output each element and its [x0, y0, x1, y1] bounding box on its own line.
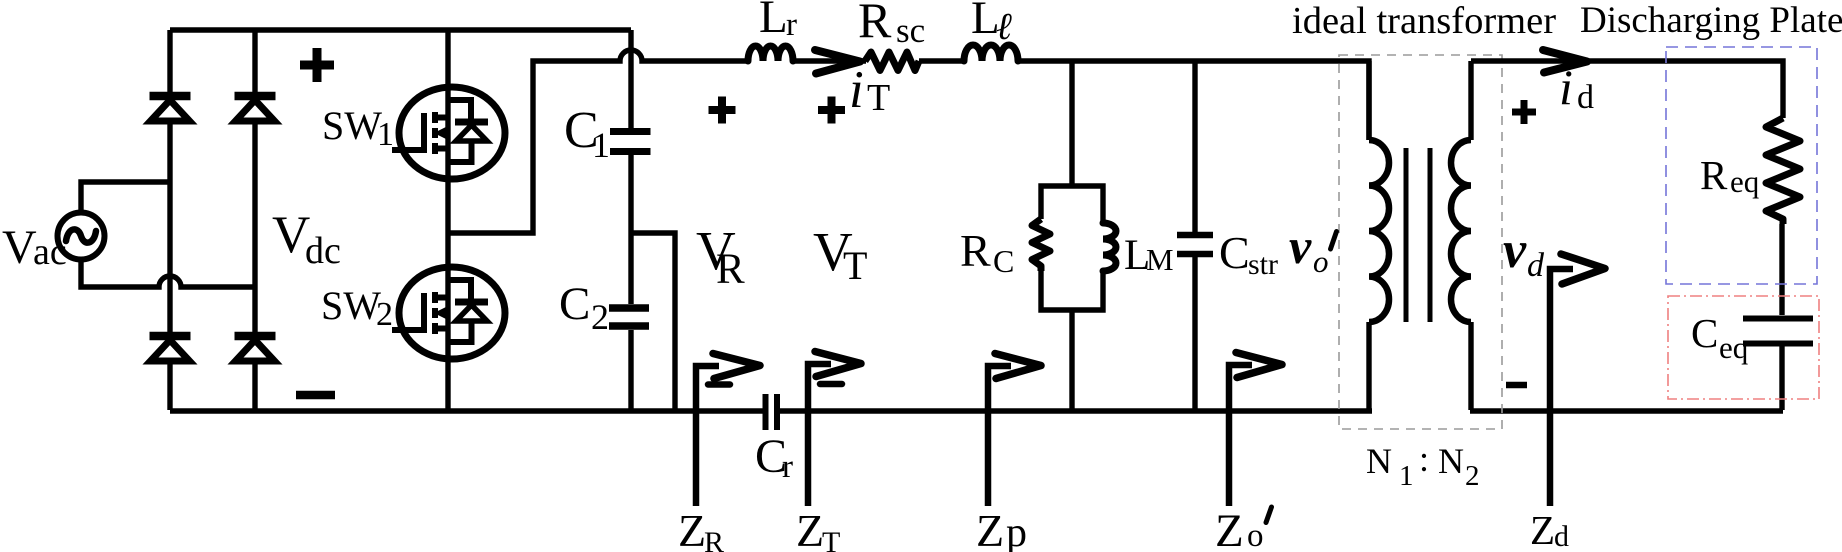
wire RC-LM top lead: [1069, 61, 1074, 186]
minus VR: [708, 381, 730, 388]
wire Cstr bottom lead: [1192, 257, 1197, 410]
resistor Rsc: [865, 52, 919, 71]
svg-text:Z: Z: [1530, 507, 1555, 552]
svg-text:R: R: [1700, 152, 1728, 198]
wire C2 bottom: [628, 330, 633, 410]
svg-text:eq: eq: [1730, 164, 1759, 199]
wire bottom bus secondary: [1470, 408, 1783, 413]
svg-text:str: str: [1248, 248, 1278, 281]
svg-text:ℓ: ℓ: [996, 6, 1012, 48]
svg-text:Z: Z: [976, 505, 1004, 552]
ideal transformer dashed box: [1339, 55, 1502, 429]
wire Req-Ceq: [1779, 224, 1784, 315]
svg-text:C: C: [1219, 227, 1250, 278]
svg-text:Z: Z: [678, 505, 706, 552]
wire half-bridge leg: [445, 30, 450, 410]
svg-text:1: 1: [592, 125, 610, 165]
wire secondary top: [1471, 61, 1783, 118]
svg-text:ideal transformer: ideal transformer: [1292, 0, 1556, 42]
wire Rsc-Ll: [919, 58, 964, 63]
diode D3 lower-left: [150, 332, 191, 341]
svg-text:v: v: [1289, 218, 1312, 274]
wire left bridge leg: [167, 30, 172, 410]
impedance arrow ZR: [696, 366, 719, 506]
svg-text:d: d: [1527, 247, 1545, 284]
svg-text:d: d: [1554, 520, 1569, 552]
transistor SW1 mosfet: [392, 87, 505, 179]
ac source Vac: [58, 213, 105, 260]
prime of vo: [1331, 232, 1337, 250]
svg-text:o: o: [1247, 518, 1264, 552]
svg-text:r: r: [782, 449, 793, 485]
svg-text:sc: sc: [896, 11, 925, 50]
transformer secondary winding: [1468, 61, 1473, 140]
plus vd: [1512, 100, 1536, 124]
capacitor C2: [609, 304, 649, 312]
svg-text:2: 2: [591, 297, 609, 337]
capacitor C1: [610, 128, 651, 135]
resistor Req: [1766, 118, 1800, 224]
wire RC-LM bottom lead: [1069, 310, 1074, 410]
transformer core: [1404, 148, 1409, 322]
wire Ceq bottom: [1779, 346, 1784, 410]
impedance arrow ZT: [808, 364, 831, 506]
svg-text:N: N: [1438, 441, 1464, 481]
transformer primary winding: [1366, 61, 1371, 140]
wire Cstr top lead: [1192, 61, 1197, 232]
svg-text:R: R: [858, 0, 892, 48]
svg-text:1: 1: [1399, 460, 1414, 492]
svg-text:i: i: [1559, 59, 1573, 115]
plus VR: [709, 97, 736, 124]
plus Vdc: [300, 48, 334, 82]
minus vd: [1506, 382, 1527, 389]
svg-text:SW: SW: [321, 283, 381, 328]
capacitor Cr: [763, 394, 769, 430]
svg-text:T: T: [867, 77, 890, 119]
svg-text:R: R: [716, 246, 745, 293]
wire tank output rail: [1018, 61, 1369, 140]
diode D4 lower-right: [235, 332, 276, 341]
capacitor Cstr: [1177, 232, 1213, 239]
svg-text:i: i: [849, 61, 864, 119]
discharging plate red box: [1668, 296, 1819, 399]
svg-text:r: r: [786, 7, 797, 43]
arrow id: [1543, 50, 1587, 73]
wire Vac top lead: [81, 182, 170, 213]
svg-text:R: R: [960, 225, 991, 276]
svg-text:eq: eq: [1719, 330, 1748, 365]
minus Vdc: [296, 391, 335, 400]
plus VT: [818, 97, 845, 124]
impedance arrow Zd: [1550, 269, 1573, 506]
capacitor Ceq: [1743, 316, 1813, 322]
svg-text:Discharging Plate: Discharging Plate: [1580, 0, 1842, 41]
svg-text:v: v: [1503, 222, 1527, 279]
svg-text:SW: SW: [322, 103, 382, 148]
wire bottom bus after Cr: [780, 408, 1372, 413]
svg-text:Z: Z: [796, 505, 824, 552]
wire Vac bottom lead with hop: [81, 259, 255, 287]
svg-text:o: o: [1313, 244, 1329, 279]
svg-text:ac: ac: [33, 231, 67, 273]
wire Lr-Rsc: [793, 58, 866, 63]
svg-text:2: 2: [1465, 460, 1480, 492]
svg-text:M: M: [1146, 242, 1174, 277]
discharging plate blue box: [1666, 47, 1817, 284]
svg-text:C: C: [993, 243, 1014, 279]
inductor LM: [1103, 223, 1116, 271]
diode D1 upper-left: [150, 92, 191, 101]
wire C1-C2: [628, 155, 633, 304]
wire RC-LM frame: [1041, 186, 1103, 310]
svg-text:dc: dc: [305, 230, 341, 272]
diode D2 upper-right: [235, 92, 276, 101]
wire half-bridge midpoint with hop: [448, 50, 748, 233]
svg-text:R: R: [704, 526, 724, 552]
svg-text:N: N: [1366, 441, 1392, 481]
wire right bridge leg: [252, 30, 257, 410]
svg-text:2: 2: [376, 296, 393, 333]
svg-text::: :: [1419, 439, 1429, 479]
svg-text:T: T: [822, 526, 840, 552]
impedance arrow Zo-prime: [1229, 365, 1252, 506]
svg-text:V: V: [2, 221, 37, 274]
resistor RC: [1032, 219, 1050, 271]
wire bottom bus primary: [170, 408, 763, 413]
minus VT: [820, 381, 842, 388]
svg-text:1: 1: [377, 116, 394, 153]
inductor Lr: [748, 46, 793, 61]
svg-text:Z: Z: [1215, 505, 1244, 552]
svg-text:T: T: [843, 243, 867, 288]
svg-text:C: C: [1691, 310, 1718, 356]
arrow iT: [815, 50, 860, 74]
svg-text:L: L: [759, 0, 788, 43]
svg-text:p: p: [1006, 510, 1027, 552]
wire C1 top: [628, 30, 633, 129]
impedance arrow Zp: [988, 366, 1011, 506]
prime of Zo: [1266, 507, 1272, 523]
svg-text:d: d: [1577, 79, 1594, 116]
transistor SW2 mosfet: [392, 267, 505, 359]
wire VR node branch: [631, 233, 675, 410]
wire top dc bus: [170, 27, 631, 32]
inductor Ll: [964, 45, 1018, 61]
svg-text:C: C: [559, 278, 590, 330]
